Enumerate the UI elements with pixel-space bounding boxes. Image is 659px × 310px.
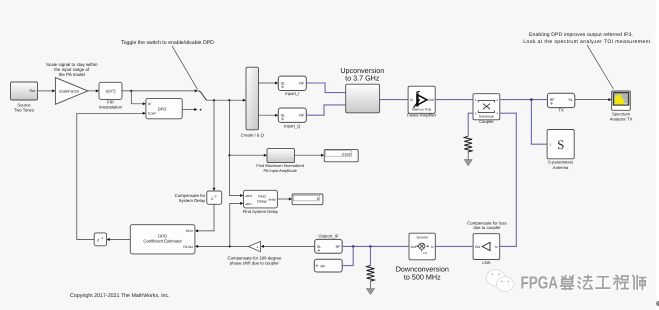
wire blue upconv to PA bbox=[380, 99, 409, 101]
junction find-max branch bbox=[228, 154, 230, 156]
junction FIR branch bbox=[130, 90, 132, 92]
junction at x214 bbox=[213, 99, 215, 101]
annotation: compensate for loss bbox=[467, 220, 506, 230]
annotation: Enabling DPD note bbox=[523, 32, 651, 89]
wire Create to Inport_I bbox=[259, 82, 279, 85]
wire Source to gain bbox=[38, 89, 56, 92]
svg-text:Enabling DPD improves output r: Enabling DPD improves output referred IP… bbox=[529, 32, 633, 38]
svg-text:Out: Out bbox=[411, 245, 416, 249]
ground 1 bbox=[464, 160, 472, 166]
svg-text:Find: Find bbox=[258, 195, 265, 199]
svg-text:Two Tones: Two Tones bbox=[14, 108, 34, 113]
svg-text:Out: Out bbox=[29, 89, 35, 93]
svg-text:Memory Poly: Memory Poly bbox=[412, 107, 432, 111]
block Create I & Q bbox=[241, 67, 265, 137]
block FIR Interpolation bbox=[99, 82, 123, 109]
svg-text:aRef: aRef bbox=[245, 194, 252, 198]
svg-text:0: 0 bbox=[215, 194, 217, 198]
block DPD bbox=[146, 98, 182, 118]
block Upconversion bbox=[340, 66, 384, 113]
annotation: Toggle the switch to enable/disable DPD bbox=[121, 40, 214, 90]
page edge white strip bbox=[656, 0, 659, 310]
svg-text:TX: TX bbox=[558, 107, 564, 112]
svg-text:Antenna: Antenna bbox=[553, 165, 569, 170]
block z-1 bbox=[94, 233, 106, 246]
svg-text:In: In bbox=[148, 102, 151, 106]
display 0.628 bbox=[324, 149, 358, 161]
svg-text:Copyright 2017-2021 The MathWo: Copyright 2017-2021 The MathWorks, Inc. bbox=[70, 293, 170, 299]
wire blue PA to coupler port1 bbox=[435, 99, 473, 101]
svg-text:Coef: Coef bbox=[148, 112, 156, 116]
ground 2 bbox=[367, 289, 375, 295]
svg-text:RF: RF bbox=[299, 81, 305, 85]
svg-text:SL: SL bbox=[281, 113, 285, 117]
block TX bbox=[547, 93, 574, 112]
svg-text:Look at the spectrum analyzer: Look at the spectrum analyzer TOI measur… bbox=[523, 39, 651, 45]
svg-text:Inport_I: Inport_I bbox=[285, 91, 299, 96]
svg-text:Directional: Directional bbox=[479, 115, 494, 119]
display delay value bbox=[292, 194, 323, 205]
wire to ground 1 bbox=[467, 151, 469, 160]
svg-text:phase shift due to coupler: phase shift due to coupler bbox=[230, 261, 280, 266]
block RF terminator bbox=[314, 259, 342, 272]
wire Create to Inport_Q bbox=[259, 114, 279, 117]
svg-text:aDel: aDel bbox=[245, 202, 252, 206]
block Inport_Q bbox=[278, 108, 306, 128]
block DPD Coefficient Estimator bbox=[130, 225, 195, 254]
svg-text:LNA: LNA bbox=[482, 260, 490, 265]
block Inport_I bbox=[278, 76, 306, 96]
wire junction up to aDel bbox=[230, 202, 244, 247]
svg-text:In: In bbox=[495, 245, 498, 249]
block Demod bbox=[409, 233, 435, 260]
svg-text:to 3.7 GHz: to 3.7 GHz bbox=[345, 74, 380, 83]
annotation: scale signal note bbox=[46, 62, 98, 77]
annotation: compensate 180 deg bbox=[228, 256, 282, 266]
svg-text:RF: RF bbox=[299, 114, 305, 118]
gain scaleFactor bbox=[55, 78, 87, 105]
wire find max to display1 bbox=[295, 154, 325, 157]
wire down to z0 bbox=[213, 100, 216, 191]
wire FIR branch to DPD In bbox=[131, 91, 146, 105]
block Find Delay bbox=[243, 190, 279, 214]
svg-text:Demod: Demod bbox=[417, 236, 428, 240]
svg-text:PA Out: PA Out bbox=[183, 245, 193, 249]
annotation: compensate for system delay bbox=[175, 193, 206, 203]
wire blue Demod to Outport_IF bbox=[342, 245, 409, 248]
wire switch out to Create I&Q bbox=[207, 99, 246, 102]
block Memory Poly Power Amplifier bbox=[407, 86, 437, 117]
wire DPD out to switch lower contact bbox=[182, 108, 201, 111]
watermark logo bbox=[486, 270, 513, 294]
wire blue junction to resistor 2 bbox=[370, 246, 372, 265]
wire blue coupler3 to resistor bbox=[468, 113, 473, 136]
svg-text:SL: SL bbox=[317, 245, 321, 249]
svg-text:Toggle the switch to enable/di: Toggle the switch to enable/disable DPD bbox=[121, 40, 214, 46]
svg-text:RF: RF bbox=[336, 245, 342, 249]
svg-text:Out: Out bbox=[475, 245, 481, 249]
svg-text:0.628: 0.628 bbox=[342, 152, 351, 156]
watermark text FPGA bbox=[521, 272, 560, 293]
gain -1 (180 degree) bbox=[248, 241, 260, 251]
svg-text:PA In: PA In bbox=[186, 229, 194, 233]
svg-text:x[n/T]: x[n/T] bbox=[105, 88, 115, 93]
block Directional Coupler bbox=[473, 94, 500, 124]
block LNA bbox=[473, 234, 500, 265]
svg-text:Delay: Delay bbox=[257, 199, 267, 203]
svg-text:Interpolation: Interpolation bbox=[99, 104, 123, 109]
svg-text:Inport_Q: Inport_Q bbox=[284, 123, 301, 128]
wire blue coupler2 to TX and antenna bbox=[500, 98, 548, 144]
wire to ground 2 bbox=[370, 280, 372, 288]
manual switch lever bbox=[198, 91, 207, 100]
svg-text:Out: Out bbox=[428, 98, 434, 102]
svg-text:Outport_IF: Outport_IF bbox=[318, 234, 338, 239]
svg-text:PA Input Amplitude: PA Input Amplitude bbox=[263, 168, 297, 173]
svg-text:Coupler: Coupler bbox=[479, 119, 494, 124]
wire blue coupler4 to LNA bbox=[500, 113, 517, 246]
wire gain -1 to estimator PA Out bbox=[195, 245, 249, 248]
block S-parameters Antenna bbox=[547, 130, 574, 170]
watermark CJK glyphs (drawn) bbox=[561, 275, 648, 291]
wire Outport SL to gain -1 bbox=[261, 245, 315, 248]
wire blue LNA to Demod bbox=[435, 245, 473, 247]
wire gain to FIR bbox=[88, 89, 99, 92]
wire TX to spectrum analyzer bbox=[575, 98, 612, 101]
block Outport_IF bbox=[315, 234, 343, 254]
svg-text:Analyzer TX: Analyzer TX bbox=[610, 117, 633, 122]
wire blue Inport_Q to upconversion bbox=[306, 105, 345, 115]
svg-text:S: S bbox=[557, 137, 564, 152]
resistor R termination 2 bbox=[367, 265, 375, 281]
svg-text:Create I & Q: Create I & Q bbox=[241, 132, 265, 137]
junction at x229.4 bbox=[228, 99, 230, 101]
svg-text:the PA model: the PA model bbox=[59, 72, 85, 77]
svg-text:to 500 MHz: to 500 MHz bbox=[404, 273, 441, 282]
svg-text:Coefficient Estimator: Coefficient Estimator bbox=[143, 238, 182, 243]
svg-text:SL: SL bbox=[281, 81, 285, 85]
svg-text:Power Amplifier: Power Amplifier bbox=[407, 113, 437, 118]
wire find delay to display2 bbox=[277, 198, 292, 201]
wire z0 to estimator PA In bbox=[195, 204, 214, 232]
svg-text:SL: SL bbox=[568, 98, 572, 102]
wire blue Inport_I to upconversion bbox=[306, 83, 345, 93]
svg-text:8: 8 bbox=[317, 197, 319, 201]
wire down to aRef bbox=[229, 100, 243, 197]
resistor R coupler termination bbox=[464, 136, 472, 152]
svg-text:RF: RF bbox=[321, 265, 327, 269]
svg-text:DPD: DPD bbox=[158, 106, 167, 111]
svg-text:-1: -1 bbox=[101, 236, 104, 240]
svg-text:due to coupler: due to coupler bbox=[473, 225, 501, 230]
wire blue terminator to main line bbox=[342, 246, 353, 265]
svg-text:delay: delay bbox=[268, 197, 276, 201]
svg-text:scaleFactor: scaleFactor bbox=[59, 88, 80, 93]
svg-text:FPGA: FPGA bbox=[521, 272, 559, 292]
wire to Find Max bbox=[229, 154, 267, 157]
annotation: Downconversion to 500 MHz bbox=[396, 264, 449, 281]
wire coef loop (z-1 up to DPD Coef) bbox=[77, 112, 146, 240]
block Source Two Tones bbox=[11, 82, 38, 113]
svg-text:-1: -1 bbox=[256, 245, 259, 249]
svg-text:RF: RF bbox=[550, 98, 556, 102]
wire estimator to z-1 bbox=[107, 238, 131, 241]
svg-text:System Delay: System Delay bbox=[179, 198, 206, 203]
wire FIR to switch bbox=[122, 89, 198, 92]
svg-text:In: In bbox=[410, 98, 413, 102]
block Find Maximum Normalized bbox=[256, 148, 304, 172]
block z0 delay bbox=[207, 191, 222, 204]
scope Spectrum Analyzer TX bbox=[610, 91, 633, 122]
svg-text:Find System Delay: Find System Delay bbox=[243, 209, 279, 214]
svg-text:In: In bbox=[431, 245, 434, 249]
